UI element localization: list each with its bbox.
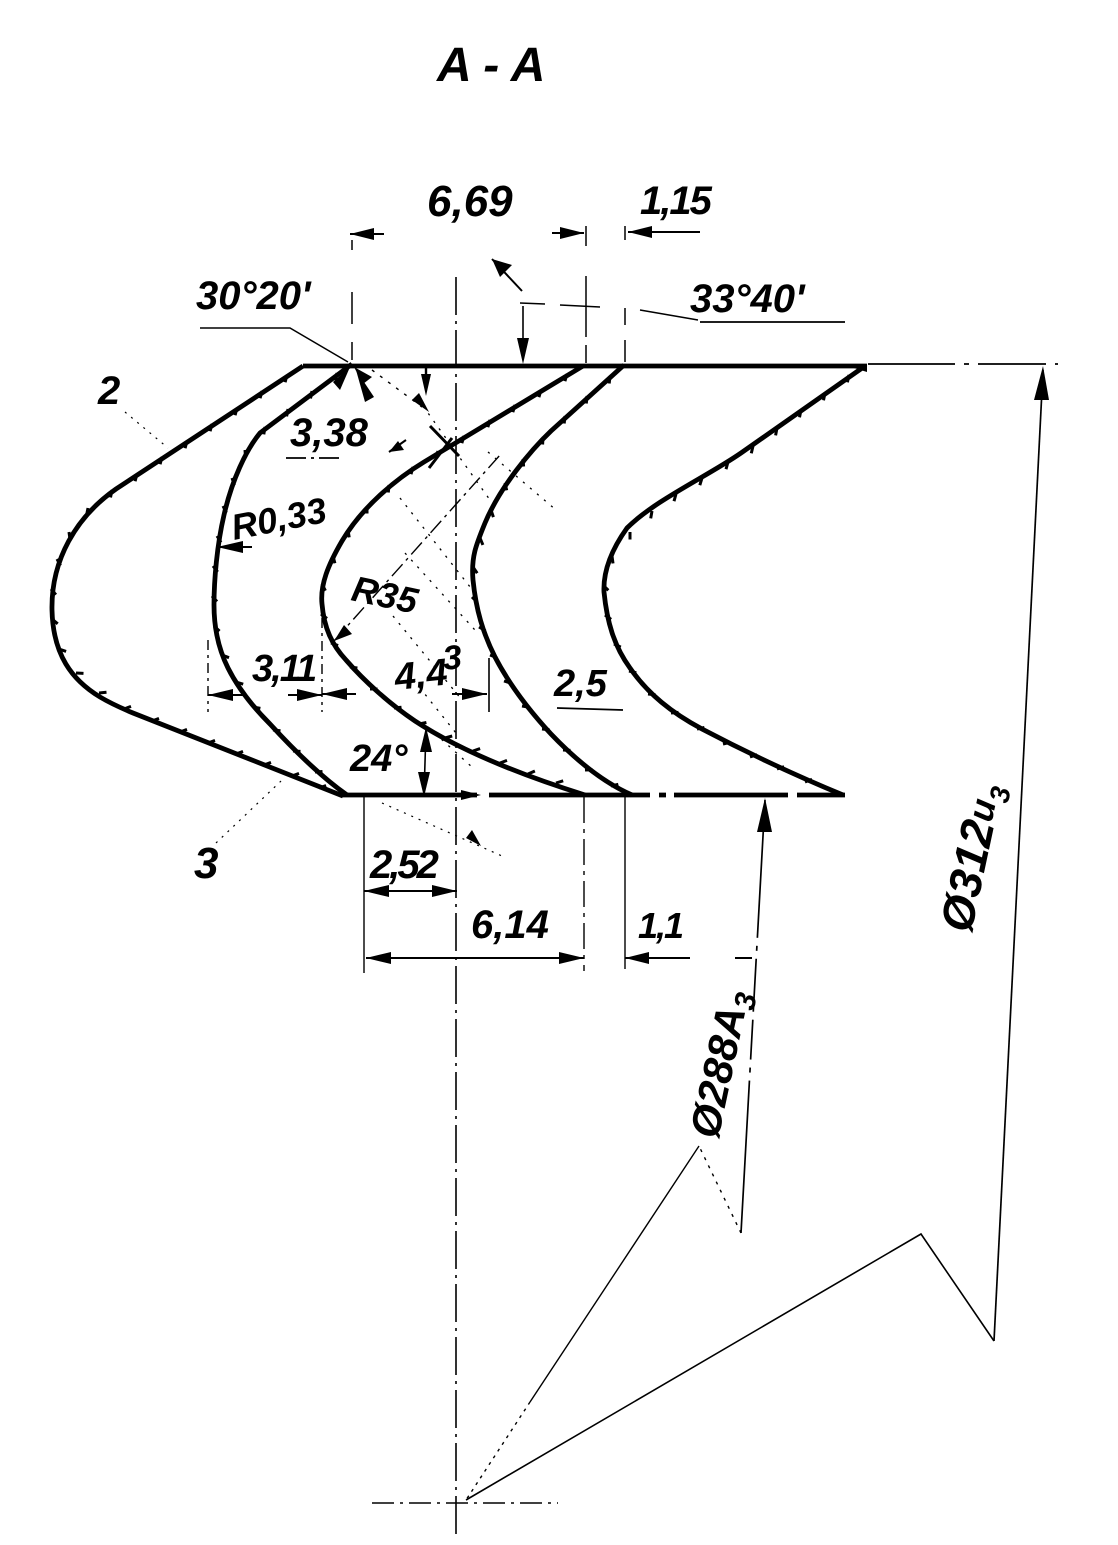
profile P1 curve (214, 364, 352, 795)
serration ticks on P4 (603, 375, 849, 782)
svg-text:3: 3 (194, 839, 218, 888)
svg-text:6,14: 6,14 (471, 903, 549, 947)
svg-text:1,15: 1,15 (640, 179, 713, 223)
extension x=208 (207, 640, 209, 712)
svg-text:1,1: 1,1 (638, 905, 683, 946)
3,11 dim arrows (208, 694, 247, 696)
dimension 6,69 left arrow (350, 233, 384, 235)
dimension 1,15 right outside arrow (628, 231, 700, 233)
2,52 dim line with arrows (364, 890, 457, 892)
svg-text:2,52: 2,52 (369, 843, 439, 887)
arrowhead on bottom line at gap (461, 790, 481, 800)
diameter 288 callout (466, 798, 772, 1500)
extension line x=352 (351, 240, 353, 360)
profile P3 curve (473, 365, 632, 795)
serration ticks on P3 (472, 376, 618, 786)
svg-text:3,38: 3,38 (290, 411, 369, 455)
profile P0 outer bullet (52, 366, 343, 796)
svg-text:3: 3 (441, 638, 464, 678)
24 arrows vertical (424, 730, 426, 795)
top line thin extension (868, 363, 1058, 365)
45 dotted construction from X junction (372, 370, 422, 407)
R0,33 leader arrow (217, 546, 252, 548)
top line end wedge (841, 364, 867, 372)
hatch dotted lines between P2 and P3 (393, 406, 556, 768)
X junction arrow cluster (333, 367, 350, 390)
6,14 dim line with arrows (366, 957, 584, 959)
bottom line (341, 793, 845, 798)
dimension 6,69 right arrow (552, 232, 584, 234)
serration ticks on P2 (321, 374, 567, 783)
extension line x=586 (585, 226, 587, 363)
serration ticks on P1 (212, 373, 337, 772)
leader of label 3 (216, 781, 281, 843)
svg-text:3,11: 3,11 (252, 648, 316, 690)
profile P4 curve (604, 366, 865, 795)
vertical centerline (455, 277, 457, 1537)
top line (303, 364, 867, 369)
svg-text:2: 2 (97, 369, 120, 413)
extension line x=625 (624, 226, 626, 362)
crossing arrows on P2 (430, 426, 459, 456)
dotted diagonal below bottom line (382, 803, 502, 856)
up-left 45 arrow near 6,69 (492, 259, 522, 291)
bottom crosshair horizontal centerline (372, 1502, 558, 1504)
leader dashes to down arrow (520, 303, 698, 320)
extension x=625 below (624, 797, 626, 969)
serration ticks on P0 (51, 375, 326, 788)
leader of label 2 (125, 412, 168, 448)
svg-text:A - A: A - A (436, 39, 545, 92)
svg-text:2,5: 2,5 (553, 663, 608, 705)
extension x=322 (321, 618, 323, 712)
extension x=364 (363, 797, 365, 973)
1,1 right outside arrow (625, 957, 752, 959)
4,43 bracket extension (488, 658, 490, 712)
small down arrow below top line at x=426 (425, 368, 427, 382)
svg-text:4,4: 4,4 (392, 652, 450, 699)
profile P2 curve (322, 366, 585, 795)
down arrow onto top line (522, 306, 524, 345)
R35 leader dashdot (334, 455, 500, 641)
svg-text:30°20': 30°20' (196, 274, 312, 318)
2,5 underline (557, 708, 623, 710)
3,38 underline (286, 457, 340, 459)
svg-text:33°40': 33°40' (690, 277, 806, 321)
4,43 arrows (322, 693, 356, 695)
diameter 312 callout (466, 366, 1049, 1500)
svg-text:6,69: 6,69 (427, 177, 513, 226)
extension x=584 below (583, 797, 585, 971)
svg-text:24°: 24° (349, 738, 408, 780)
